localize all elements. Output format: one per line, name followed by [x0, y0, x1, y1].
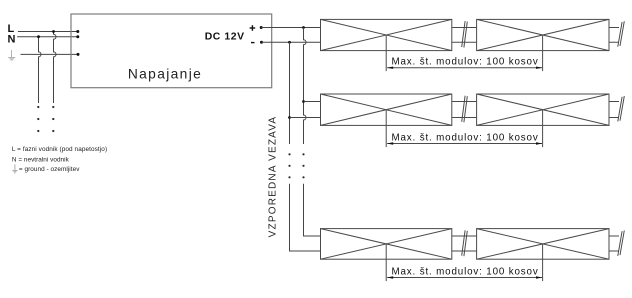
witness line row1 A — [385, 35, 387, 71]
dimension line row2 — [387, 143, 542, 145]
svg-text:DC 12V: DC 12V — [205, 32, 245, 43]
wire + feed row 2 — [304, 101, 321, 103]
wire - bus lower segment to row 3 — [290, 184, 321, 251]
break marks row2 mid — [462, 96, 468, 123]
wire tap from L (vertical line 2 with hops over N and ground wires) — [54, 32, 57, 104]
wire N (neutral) — [17, 36, 78, 38]
power supply box U1 — [71, 14, 272, 88]
terminal dot - (DC out) — [260, 41, 263, 44]
LED module row2 B — [477, 94, 609, 125]
junction L tap — [52, 30, 55, 33]
terminal dot + (DC out) — [260, 26, 263, 29]
svg-text:N = nevtralni vodnik: N = nevtralni vodnik — [12, 156, 70, 163]
junction + row 2 — [302, 100, 305, 103]
junction + bus top — [302, 26, 305, 29]
dimension line row1 — [387, 67, 542, 69]
svg-text:Max. št. modulov: 100 kosov: Max. št. modulov: 100 kosov — [392, 267, 539, 278]
junction - bus top — [288, 41, 291, 44]
wire - bus (vertical) — [289, 42, 291, 144]
wire stubs right row3 — [609, 236, 619, 251]
svg-text:L = fazni vodnik (pod napetost: L = fazni vodnik (pod napetostjo) — [12, 146, 107, 153]
terminal dot L (box input) — [76, 30, 79, 33]
legend ground symbol — [12, 164, 17, 173]
break marks row1 mid — [462, 21, 468, 47]
witness line row2 A — [385, 110, 387, 147]
wire stubs right row1 — [609, 28, 619, 43]
witness line row2 B — [542, 110, 544, 147]
LED module row3 B — [477, 229, 609, 260]
wire ground — [21, 53, 79, 55]
svg-text:Napajanje: Napajanje — [128, 67, 202, 82]
wire - feed row 2 — [290, 117, 321, 119]
wire between modules row1 — [452, 28, 477, 43]
dimension arrows row2 — [387, 142, 393, 144]
wire stubs right row2 — [609, 102, 619, 118]
continuation dots of mains taps — [37, 106, 54, 132]
LED module row1 B — [477, 19, 609, 50]
wire + bus lower segment to row 3 — [304, 184, 321, 236]
svg-text:VZPOREDNA VEZAVA: VZPOREDNA VEZAVA — [267, 116, 278, 238]
dimension line row3 — [387, 277, 542, 279]
junction N tap — [37, 35, 40, 38]
wire - feed row 1 — [262, 41, 321, 43]
break marks row3 right — [618, 230, 625, 256]
wire + bus (vertical, hops over - wires) — [304, 28, 307, 145]
dimension arrows row3 — [387, 276, 393, 278]
break marks row3 mid — [462, 230, 468, 256]
terminal dot N (box input) — [76, 35, 79, 38]
LED module row2 A — [321, 94, 452, 125]
svg-text:N: N — [8, 33, 16, 45]
witness line row1 B — [542, 35, 544, 71]
LED module row3 A — [321, 229, 452, 260]
wire between modules row2 — [452, 102, 477, 118]
minus sign — [251, 42, 255, 44]
break marks row2 right — [618, 96, 625, 122]
dimension arrows row1 — [387, 67, 393, 69]
wire between modules row3 — [452, 236, 477, 251]
wire tap from N (vertical line 1 with hop over ground wire) — [39, 37, 42, 103]
LED module row1 A — [321, 19, 452, 50]
svg-text:= ground - ozemljitev: = ground - ozemljitev — [19, 166, 80, 173]
wire + feed row 1 — [261, 27, 320, 29]
terminal dot ground (box input) — [77, 53, 80, 56]
break marks row1 right — [618, 21, 625, 47]
plus sign — [250, 25, 256, 31]
svg-text:Max. št. modulov: 100 kosov: Max. št. modulov: 100 kosov — [392, 57, 539, 68]
witness line row3 B — [542, 244, 544, 281]
junction - row 2 — [288, 116, 291, 119]
witness line row3 A — [385, 244, 387, 281]
ground symbol (mains earth) — [8, 50, 15, 60]
wire L (phase) — [18, 31, 78, 33]
continuation dots of buses — [288, 153, 304, 178]
svg-text:Max. št. modulov: 100 kosov: Max. št. modulov: 100 kosov — [392, 133, 539, 144]
